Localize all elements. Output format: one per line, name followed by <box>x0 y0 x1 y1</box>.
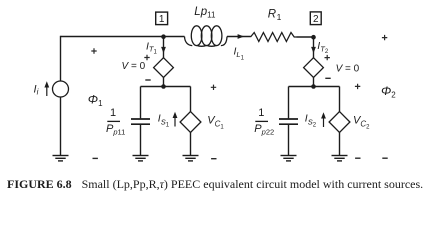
minus sign Phi2 bottom <box>382 157 387 159</box>
plus sign VC1 top <box>211 85 216 90</box>
ground under cap1 <box>133 156 149 161</box>
dependent source IT2 diamond <box>304 58 324 78</box>
svg-text:1: 1 <box>258 107 264 119</box>
wire cap2 bottom lead <box>288 125 290 156</box>
arrow IS2 <box>321 112 326 127</box>
wire top left horizontal <box>61 36 185 38</box>
node box 1 <box>156 12 168 25</box>
minus sign VC2 bottom <box>355 157 360 159</box>
svg-text:V = 0: V = 0 <box>122 61 146 72</box>
fraction bar 1/Pp11 <box>107 120 120 122</box>
node 1 junction dot <box>161 34 166 39</box>
plus sign Phi1 top <box>91 48 96 53</box>
node junction dot below IT2 <box>311 84 316 89</box>
resistor R1 <box>251 33 297 42</box>
wire node2 to IT2 diamond <box>313 37 315 58</box>
wire lower horizontal left <box>141 86 191 88</box>
svg-text:FIGURE 6.8Small (Lp,Pp,R,τ) PE: FIGURE 6.8Small (Lp,Pp,R,τ) PEEC equival… <box>7 177 423 191</box>
ground under IS2 <box>332 156 348 161</box>
ground under IS1 <box>183 156 199 161</box>
wire left vertical upper <box>60 36 62 81</box>
arrow IS1 <box>173 112 178 127</box>
wire node1 to IT1 diamond <box>163 37 165 58</box>
capacitor 1/Pp11 plates <box>131 119 150 124</box>
wire resistor to node2 <box>297 36 314 38</box>
wire IT1 diamond to lower node <box>163 77 165 87</box>
minus sign near IT1 <box>145 79 150 81</box>
ground left under Ii <box>53 156 69 161</box>
wire IT2 diamond to lower node <box>313 77 315 87</box>
svg-text:2: 2 <box>313 14 319 25</box>
wire IS1 top lead <box>190 87 192 113</box>
wire IS1 bottom lead <box>190 132 192 156</box>
plus sign Phi2 top <box>382 35 387 40</box>
wire IS2 bottom lead <box>339 132 341 156</box>
inductor Lp11 <box>185 26 228 47</box>
svg-text:1: 1 <box>110 107 116 119</box>
node 2 junction dot <box>311 35 316 40</box>
wire cap2 top lead <box>288 87 290 119</box>
capacitor 1/Pp22 plates <box>279 119 298 124</box>
minus sign VC1 bottom <box>211 158 216 160</box>
minus sign near IT2 <box>325 77 330 79</box>
minus sign Phi1 bottom <box>93 157 98 159</box>
current source IS1 diamond <box>180 112 201 133</box>
plus sign near IT1 <box>144 55 149 60</box>
fraction bar 1/Pp22 <box>255 120 268 122</box>
plus sign near IT2 <box>325 55 330 60</box>
wire left vertical lower <box>60 97 62 156</box>
ground under cap2 <box>281 156 297 161</box>
wire cap1 top lead <box>140 87 142 119</box>
svg-text:1: 1 <box>159 14 165 25</box>
dependent source IT1 diamond <box>154 58 174 78</box>
arrow of current source Ii <box>44 81 49 96</box>
node junction dot below IT1 <box>161 84 166 89</box>
current source Ii circle <box>53 81 69 97</box>
arrow IL1 <box>238 34 245 39</box>
arrow IT1 <box>161 47 166 53</box>
arrow IT2 <box>311 47 316 53</box>
wire inductor to resistor with IL1 arrow <box>227 36 251 38</box>
node box 2 <box>310 12 321 25</box>
wire lower horizontal right <box>289 86 340 88</box>
plus sign VC2 top <box>355 84 360 89</box>
svg-text:V = 0: V = 0 <box>336 64 360 75</box>
wire IS2 top lead <box>339 87 341 113</box>
wire cap1 bottom lead <box>140 125 142 156</box>
current source IS2 diamond <box>329 112 350 133</box>
